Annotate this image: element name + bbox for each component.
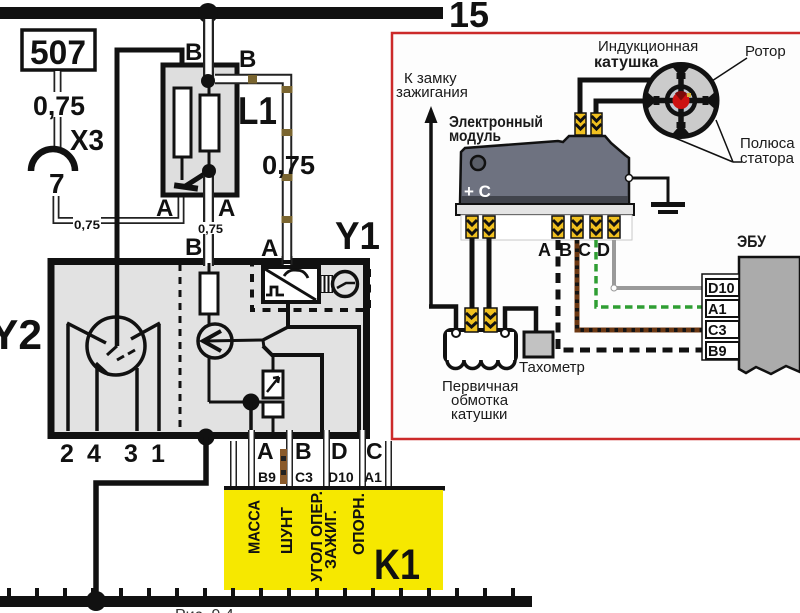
svg-text:A: A [261, 235, 278, 262]
svg-text:L1: L1 [238, 90, 277, 133]
svg-text:D: D [597, 240, 610, 260]
svg-text:D10: D10 [328, 469, 354, 485]
svg-text:B: B [295, 438, 312, 464]
svg-text:Тахометр: Тахометр [519, 359, 585, 376]
svg-text:B: B [559, 240, 572, 260]
svg-text:C3: C3 [708, 323, 727, 339]
svg-text:A: A [156, 195, 173, 222]
svg-text:C3: C3 [295, 469, 313, 485]
svg-text:K1: K1 [374, 541, 420, 589]
svg-text:МАССА: МАССА [247, 500, 264, 554]
svg-text:зажигания: зажигания [396, 84, 468, 101]
svg-text:+ C: + C [464, 182, 491, 201]
svg-text:3: 3 [124, 440, 138, 468]
svg-text:15: 15 [449, 0, 489, 35]
svg-text:507: 507 [30, 34, 86, 72]
svg-text:модуль: модуль [449, 128, 501, 145]
svg-text:Y1: Y1 [335, 215, 380, 258]
svg-text:ЗАЖИГ.: ЗАЖИГ. [323, 510, 340, 569]
svg-text:Y2: Y2 [0, 311, 42, 358]
svg-text:2: 2 [60, 440, 74, 468]
svg-text:C: C [578, 240, 591, 260]
svg-text:Ротор: Ротор [745, 43, 786, 60]
svg-text:C: C [366, 438, 383, 464]
svg-text:катушки: катушки [451, 406, 507, 423]
svg-text:ЭБУ: ЭБУ [737, 232, 766, 251]
svg-text:A: A [538, 240, 551, 260]
svg-text:0,75: 0,75 [33, 91, 85, 121]
svg-text:A1: A1 [708, 302, 727, 318]
svg-text:катушка: катушка [594, 54, 658, 71]
svg-text:B9: B9 [708, 344, 727, 360]
svg-text:B9: B9 [258, 469, 276, 485]
svg-text:Индукционная: Индукционная [598, 38, 698, 55]
svg-text:0,75: 0,75 [74, 218, 100, 232]
svg-text:4: 4 [87, 440, 101, 468]
svg-text:B: B [185, 39, 202, 66]
svg-text:D: D [331, 438, 348, 464]
svg-text:ШУНТ: ШУНТ [279, 507, 296, 554]
svg-text:A: A [257, 438, 274, 464]
svg-text:X3: X3 [70, 125, 104, 157]
svg-text:A: A [218, 195, 235, 222]
svg-text:A1: A1 [364, 469, 382, 485]
svg-text:B: B [185, 234, 202, 261]
svg-text:B: B [239, 46, 256, 73]
svg-text:Рис. 9.4: Рис. 9.4 [175, 607, 234, 613]
svg-text:0,75: 0,75 [262, 150, 315, 180]
svg-text:статора: статора [740, 150, 795, 167]
svg-text:7: 7 [49, 168, 65, 199]
svg-text:D10: D10 [708, 281, 735, 297]
svg-text:ОПОРН.: ОПОРН. [351, 493, 368, 555]
svg-text:1: 1 [151, 440, 165, 468]
